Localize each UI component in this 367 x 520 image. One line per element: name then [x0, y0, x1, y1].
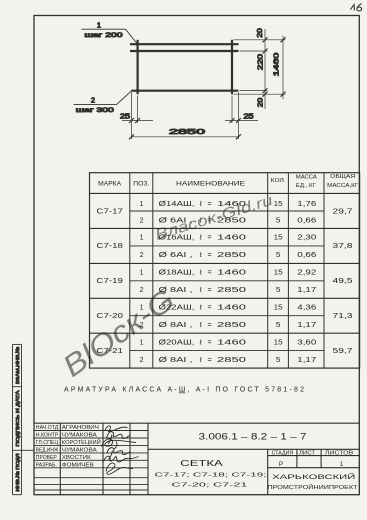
svg-text:=: =	[208, 322, 212, 329]
svg-text:2850: 2850	[217, 252, 246, 259]
svg-text:1460: 1460	[217, 339, 246, 346]
mesh bar right vertical (poz 1)	[231, 40, 233, 94]
table column lines	[130, 173, 324, 368]
svg-text:ЧУМАКОВА: ЧУМАКОВА	[62, 432, 98, 438]
svg-text:ℓ: ℓ	[199, 339, 203, 346]
svg-text:НАЧ.ОТД: НАЧ.ОТД	[36, 425, 59, 431]
svg-text:0,66: 0,66	[297, 217, 316, 224]
svg-text:1,17: 1,17	[297, 287, 316, 294]
title block lines	[34, 423, 359, 495]
dimension line 20-220-20	[263, 29, 268, 109]
mesh bar second horizontal	[130, 50, 239, 52]
svg-text:1,76: 1,76	[297, 201, 316, 208]
handwritten sheet number 16	[351, 4, 362, 12]
svg-text:20: 20	[257, 28, 264, 38]
svg-text:2: 2	[91, 96, 95, 105]
svg-text:=: =	[208, 201, 212, 208]
svg-text:1: 1	[140, 235, 144, 242]
svg-text:ВЗАМ.ИНВ.№: ВЗАМ.ИНВ.№	[15, 347, 21, 384]
svg-text:Ø 8АI ,: Ø 8АI ,	[159, 357, 193, 364]
svg-text:1: 1	[97, 20, 101, 29]
table group separator lines	[90, 228, 360, 333]
extension lines bottom	[132, 92, 239, 139]
svg-text:=: =	[208, 287, 212, 294]
svg-text:ℓ: ℓ	[199, 322, 203, 329]
svg-text:С7-18: С7-18	[96, 243, 123, 250]
svg-text:1460: 1460	[217, 235, 246, 242]
svg-text:4,36: 4,36	[297, 305, 316, 312]
svg-text:С7-20; С7-21: С7-20; С7-21	[172, 482, 248, 488]
svg-text:АГРАНОВИЧ: АГРАНОВИЧ	[62, 425, 99, 431]
signatures	[102, 426, 139, 474]
svg-text:ℓ: ℓ	[199, 201, 203, 208]
svg-text:Ø 6АI ,: Ø 6АI ,	[159, 252, 193, 259]
svg-text:5: 5	[276, 217, 281, 224]
svg-text:Р: Р	[279, 461, 283, 468]
svg-text:Ø14АШ,: Ø14АШ,	[159, 201, 195, 208]
svg-text:1,17: 1,17	[297, 322, 316, 329]
svg-text:59,7: 59,7	[333, 348, 353, 355]
svg-text:2: 2	[140, 357, 144, 364]
svg-text:ГЛ.СПЕЦ: ГЛ.СПЕЦ	[36, 440, 59, 446]
svg-text:ХВОСТИК: ХВОСТИК	[62, 455, 91, 461]
svg-text:шаг 200: шаг 200	[85, 32, 123, 39]
svg-text:=: =	[208, 305, 212, 312]
svg-text:ПОЗ.: ПОЗ.	[133, 181, 149, 187]
svg-text:5: 5	[276, 287, 281, 294]
svg-text:1: 1	[140, 270, 144, 277]
svg-text:49,5: 49,5	[333, 278, 353, 285]
svg-text:2: 2	[140, 252, 144, 259]
svg-text:Н.КОНТР: Н.КОНТР	[36, 432, 59, 438]
svg-text:5: 5	[276, 252, 281, 259]
svg-text:РАЗРАБ.: РАЗРАБ.	[36, 462, 57, 468]
svg-text:ФОМИЧЁВ: ФОМИЧЁВ	[62, 461, 95, 468]
svg-text:СЕТКА: СЕТКА	[180, 459, 224, 468]
svg-text:2,92: 2,92	[297, 270, 316, 277]
svg-text:15: 15	[274, 339, 283, 346]
svg-text:АРМАТУРА КЛАССА А-Ш, А-I ПО: АРМАТУРА КЛАССА А-Ш, А-I ПО ГОСТ 5781-82	[64, 387, 304, 394]
svg-text:ℓ: ℓ	[199, 235, 203, 242]
mesh bar top horizontal (poz 2 first)	[130, 43, 239, 45]
mesh bar bottom horizontal	[131, 90, 238, 92]
svg-text:ХАРЬКОВСКИЙ: ХАРЬКОВСКИЙ	[272, 473, 355, 481]
svg-text:ИНВ.№ ПОДЛ: ИНВ.№ ПОДЛ	[15, 454, 21, 492]
svg-text:37,8: 37,8	[333, 243, 353, 250]
svg-text:С7-17: С7-17	[96, 208, 123, 215]
svg-text:ПРОВЕР: ПРОВЕР	[36, 455, 58, 461]
dimension line 1460	[281, 36, 286, 100]
stage cells	[272, 451, 355, 468]
svg-text:1: 1	[340, 461, 344, 468]
table header line	[90, 192, 360, 194]
svg-text:ПРОМСТРОЙНИИПРОЕКТ: ПРОМСТРОЙНИИПРОЕКТ	[268, 483, 359, 491]
svg-text:15: 15	[274, 305, 283, 312]
svg-text:Ø20АШ,: Ø20АШ,	[159, 339, 195, 346]
svg-text:ПОДПИСЬ И ДАТА: ПОДПИСЬ И ДАТА	[15, 389, 21, 446]
svg-text:ℓ: ℓ	[199, 357, 203, 364]
svg-text:ЕД., КГ: ЕД., КГ	[296, 183, 316, 189]
svg-text:ℓ: ℓ	[199, 287, 203, 294]
svg-text:=: =	[208, 270, 212, 277]
leader 1 shag 200	[82, 29, 138, 44]
svg-text:5: 5	[276, 357, 281, 364]
svg-text:220: 220	[258, 54, 265, 70]
table subrow lines	[130, 211, 324, 351]
svg-text:Ø18АШ,: Ø18АШ,	[159, 270, 195, 277]
svg-text:ℓ: ℓ	[199, 305, 203, 312]
svg-text:ОБЩАЯ: ОБЩАЯ	[330, 174, 355, 180]
svg-text:2850: 2850	[217, 357, 246, 364]
svg-text:5: 5	[276, 322, 281, 329]
svg-text:ℓ: ℓ	[199, 252, 203, 259]
table outer border	[90, 173, 360, 368]
svg-text:1: 1	[140, 339, 144, 346]
svg-text:1460: 1460	[274, 53, 281, 77]
svg-text:71,3: 71,3	[333, 313, 353, 320]
svg-text:Ø 8АI ,: Ø 8АI ,	[159, 322, 193, 329]
svg-text:2,30: 2,30	[297, 235, 316, 242]
left binding strip	[13, 344, 35, 494]
svg-text:шаг 300: шаг 300	[76, 107, 114, 114]
svg-text:3.006.1 – 8.2 – 1 – 7: 3.006.1 – 8.2 – 1 – 7	[199, 432, 307, 442]
dimension line 25 left	[122, 118, 153, 123]
leader 2 shag 300	[74, 91, 132, 105]
svg-text:=: =	[208, 357, 212, 364]
svg-text:КОРОТЕЦКИЙ: КОРОТЕЦКИЙ	[62, 438, 101, 446]
svg-text:ЧУМАКОВА: ЧУМАКОВА	[62, 447, 98, 453]
svg-text:1460: 1460	[217, 270, 246, 277]
svg-text:С7-17; С7-18; С7-19;: С7-17; С7-18; С7-19;	[155, 473, 268, 479]
svg-text:=: =	[208, 339, 212, 346]
svg-text:ℓ: ℓ	[199, 270, 203, 277]
svg-text:ВЕД.ИНЖ: ВЕД.ИНЖ	[36, 447, 59, 453]
svg-text:0,66: 0,66	[297, 252, 316, 259]
title block left labels	[36, 425, 101, 468]
extension lines right side	[234, 40, 286, 94]
svg-text:=: =	[208, 252, 212, 259]
svg-text:25: 25	[244, 114, 254, 121]
svg-text:МАРКА: МАРКА	[98, 181, 121, 187]
svg-text:ЛИСТОВ: ЛИСТОВ	[325, 451, 354, 457]
table header text	[98, 174, 358, 189]
svg-text:1,17: 1,17	[297, 357, 316, 364]
svg-text:1460: 1460	[217, 305, 246, 312]
svg-text:КОЛ.: КОЛ.	[271, 178, 286, 184]
svg-text:29,7: 29,7	[333, 208, 353, 215]
svg-text:25: 25	[120, 114, 130, 121]
dimension line 2850	[129, 134, 241, 139]
svg-text:ЛИСТ: ЛИСТ	[299, 451, 315, 457]
mesh bar left vertical (poz 1)	[137, 40, 139, 94]
svg-text:С7-19: С7-19	[96, 278, 123, 285]
svg-text:НАИМЕНОВАНИЕ: НАИМЕНОВАНИЕ	[176, 181, 245, 187]
svg-text:2850: 2850	[169, 127, 205, 136]
table body text	[96, 201, 352, 364]
svg-text:МАССА: МАССА	[296, 174, 317, 180]
svg-text:15: 15	[274, 235, 283, 242]
svg-text:1: 1	[140, 201, 144, 208]
svg-text:2: 2	[140, 217, 144, 224]
svg-text:2850: 2850	[217, 322, 246, 329]
svg-text:2: 2	[140, 287, 144, 294]
svg-text:20: 20	[258, 98, 265, 108]
svg-text:=: =	[208, 235, 212, 242]
svg-text:15: 15	[274, 201, 283, 208]
svg-text:2850: 2850	[217, 287, 246, 294]
svg-text:3,60: 3,60	[297, 339, 316, 346]
svg-text:15: 15	[274, 270, 283, 277]
svg-text:СТАДИЯ: СТАДИЯ	[272, 451, 294, 457]
svg-text:МАССА,КГ: МАССА,КГ	[327, 183, 358, 189]
dimension line 25 right	[225, 118, 258, 123]
